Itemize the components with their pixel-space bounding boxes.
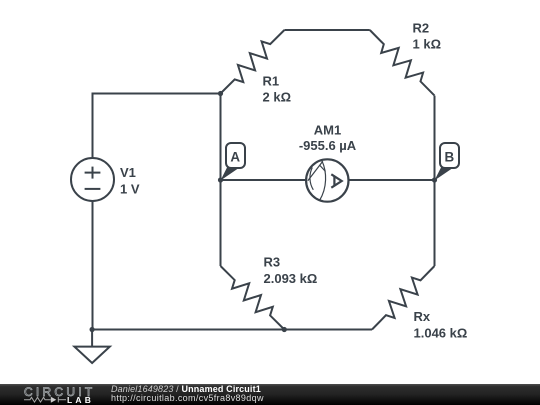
svg-text:Rx: Rx: [414, 309, 431, 324]
wire: [93, 94, 221, 159]
wire: [92, 329, 372, 331]
svg-text:1.046 kΩ: 1.046 kΩ: [414, 326, 468, 341]
svg-text:2.093 kΩ: 2.093 kΩ: [264, 271, 318, 286]
label R1: [263, 74, 292, 105]
svg-text:2 kΩ: 2 kΩ: [263, 90, 292, 105]
voltage source V1: [71, 158, 114, 201]
svg-text:-955.6 µA: -955.6 µA: [299, 138, 357, 153]
wire: [434, 96, 436, 266]
svg-text:R1: R1: [263, 74, 280, 89]
label R3: [264, 255, 318, 287]
label Rx: [414, 309, 468, 341]
junction node ground: [90, 327, 95, 332]
svg-text:V1: V1: [120, 165, 136, 180]
junction node bottom: [282, 327, 287, 332]
resistor R2: [370, 30, 435, 96]
label V1: [120, 165, 140, 197]
label AM1: [299, 123, 357, 154]
svg-text:AM1: AM1: [314, 123, 341, 138]
footer text: [111, 384, 264, 403]
wire: [92, 201, 94, 330]
CircuitLab logo: [24, 385, 95, 405]
wire: [220, 94, 222, 267]
wire: [221, 179, 307, 181]
resistor R1: [221, 30, 285, 94]
ground: [74, 330, 109, 364]
svg-text:B: B: [444, 150, 454, 165]
svg-text:R2: R2: [413, 21, 430, 36]
ammeter AM1: [306, 159, 348, 201]
svg-text:A: A: [230, 150, 240, 165]
resistor Rx: [372, 266, 435, 330]
svg-text:R3: R3: [264, 255, 281, 270]
wire: [284, 29, 369, 31]
junction node B: [432, 177, 437, 182]
svg-text:http://circuitlab.com/cv5fra8v: http://circuitlab.com/cv5fra8v89dqw: [111, 393, 264, 403]
svg-text:1 V: 1 V: [120, 182, 140, 197]
svg-text:1 kΩ: 1 kΩ: [413, 37, 442, 52]
junction node A: [218, 177, 223, 182]
svg-text:LAB: LAB: [67, 395, 94, 405]
resistor R3: [221, 266, 285, 330]
node A: [221, 143, 246, 181]
node B: [434, 143, 459, 181]
label R2: [413, 21, 442, 52]
wire: [348, 179, 434, 181]
junction node top-left: [218, 91, 223, 96]
